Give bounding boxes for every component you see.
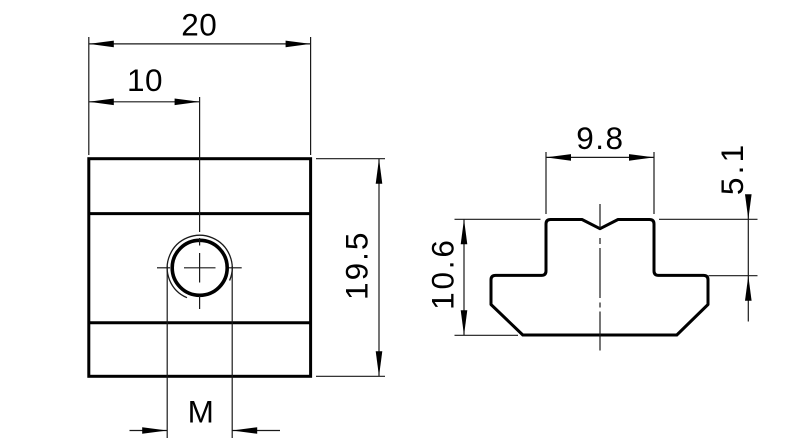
dimension M arrow right (points left)	[232, 427, 257, 434]
dimension 10.6 arrow bottom	[461, 310, 468, 335]
dimension 5.1 arrow lower (points up)	[745, 276, 752, 301]
svg-text:5.1: 5.1	[714, 142, 750, 195]
dimension 9.8 line	[546, 156, 654, 158]
dimension 10 arrow left	[89, 99, 114, 106]
horizontal centerline of hole	[157, 267, 242, 269]
svg-text:M: M	[188, 394, 214, 430]
svg-text:19.5: 19.5	[339, 231, 375, 300]
svg-text:10: 10	[127, 62, 163, 98]
dimension 19.5 line	[378, 159, 380, 377]
dimension 9.8 arrow right	[629, 154, 654, 161]
dimension 5.1 extension line top	[659, 218, 758, 220]
dimension 10.6 arrow top	[461, 219, 468, 244]
dimension 10.6 extension line top	[455, 218, 541, 220]
svg-text:10.6: 10.6	[425, 237, 461, 310]
dimension 19.5 arrow top	[376, 159, 383, 184]
T-profile outline	[491, 220, 708, 336]
dimension 20 extension line left	[88, 37, 90, 155]
dimension M extension line left	[166, 266, 168, 438]
profile vertical centerline	[599, 204, 601, 351]
dimension 19.5 arrow bottom	[376, 351, 383, 376]
dimension 9.8 extension line left	[545, 152, 547, 214]
dimension 19.5 extension line top	[316, 158, 385, 160]
dimension M line left tail	[130, 430, 168, 432]
svg-text:20: 20	[181, 7, 217, 43]
dimension 9.8 arrow left	[546, 154, 571, 161]
dimension 20 arrow right	[286, 41, 311, 48]
vertical centerline of hole	[199, 97, 201, 309]
upper edge line of slot step	[89, 212, 311, 215]
dimension 5.1 extension line bottom	[709, 275, 758, 277]
dimension 20 extension line right	[310, 37, 312, 155]
dimension 20 arrow left	[89, 41, 114, 48]
tapped hole circle	[172, 240, 227, 295]
dimension 20 line	[89, 43, 311, 45]
dimension 19.5 extension line bottom	[316, 375, 385, 377]
dimension 5.1 arrow upper (points down)	[745, 194, 752, 219]
dimension 10 line	[89, 101, 200, 103]
dimension 9.8 extension line right	[653, 152, 655, 214]
dimension M arrow left (points right)	[142, 427, 167, 434]
body outline rectangle	[89, 159, 311, 377]
dimension 10.6 extension line bottom	[455, 334, 519, 336]
svg-text:9.8: 9.8	[576, 120, 624, 156]
dimension M extension line right	[231, 266, 233, 438]
dimension 10.6 line	[463, 219, 465, 335]
thread arc (3/4 thin circle)	[167, 235, 232, 297]
lower edge line of slot step	[89, 321, 311, 324]
dimension M line right tail	[232, 430, 280, 432]
dimension 5.1 line	[747, 196, 749, 322]
dimension 10 arrow right	[175, 99, 200, 106]
